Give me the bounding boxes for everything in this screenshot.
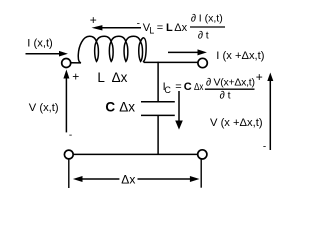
svg-text:+: + xyxy=(256,70,263,84)
capacitor C bottom plate xyxy=(141,114,175,116)
capacitor C top plate xyxy=(141,101,175,103)
wire coil to right node xyxy=(144,61,198,63)
svg-text:L: L xyxy=(166,22,173,34)
label L dx xyxy=(97,70,127,85)
svg-text:=: = xyxy=(157,22,163,34)
wire top rail to capacitor xyxy=(157,62,159,102)
svg-text:∂ t: ∂ t xyxy=(198,29,209,41)
svg-text:V (x,t): V (x,t) xyxy=(29,102,59,114)
svg-text:-: - xyxy=(137,19,140,30)
svg-text:Δx: Δx xyxy=(119,99,135,114)
node top-right xyxy=(198,58,207,67)
formula IC = C dx dV/dt xyxy=(163,77,255,102)
svg-text:∂ V(x+Δx,t): ∂ V(x+Δx,t) xyxy=(206,77,255,89)
node bottom-left xyxy=(64,150,73,159)
svg-text:Δx: Δx xyxy=(121,172,135,186)
svg-text:C: C xyxy=(164,85,171,95)
inductor L coil xyxy=(71,36,147,63)
svg-text:∂ I (x,t): ∂ I (x,t) xyxy=(191,13,223,25)
svg-text:I (x +Δx,t): I (x +Δx,t) xyxy=(216,50,264,62)
current arrow I(x,t) xyxy=(26,51,68,57)
bottom rail wire xyxy=(73,153,198,155)
svg-text:-: - xyxy=(263,141,266,152)
svg-text:Δx: Δx xyxy=(174,22,187,34)
current arrow I(x+dx,t) xyxy=(168,49,207,55)
svg-text:-: - xyxy=(69,130,72,141)
svg-text:∂ t: ∂ t xyxy=(220,90,231,102)
dimension arrow dx pointing left xyxy=(73,176,120,182)
dimension tick left xyxy=(68,159,70,188)
svg-text:+: + xyxy=(72,70,79,84)
voltage arrow VL pointing left xyxy=(92,25,142,30)
formula VL = L dx dI/dt xyxy=(143,13,225,42)
current arrow IC pointing down xyxy=(175,91,183,130)
svg-text:+: + xyxy=(90,13,97,27)
dimension arrow dx pointing right xyxy=(138,176,200,182)
node bottom-right xyxy=(198,150,207,159)
svg-text:V (x +Δx,t): V (x +Δx,t) xyxy=(210,117,263,129)
node top-left xyxy=(62,59,71,68)
dimension tick right xyxy=(200,160,202,188)
voltage arrow V(x+dx,t) pointing up xyxy=(267,73,273,151)
svg-text:L: L xyxy=(97,70,105,85)
label C dx xyxy=(105,99,135,114)
wire capacitor to bottom rail xyxy=(157,115,159,154)
svg-text:I (x,t): I (x,t) xyxy=(27,38,53,50)
voltage arrow V(x,t) pointing up xyxy=(63,70,69,133)
svg-text:C: C xyxy=(105,99,115,114)
svg-text:Δx: Δx xyxy=(112,70,128,85)
svg-text:Δx: Δx xyxy=(194,81,204,93)
svg-text:C: C xyxy=(184,81,192,93)
svg-text:L: L xyxy=(149,26,154,36)
